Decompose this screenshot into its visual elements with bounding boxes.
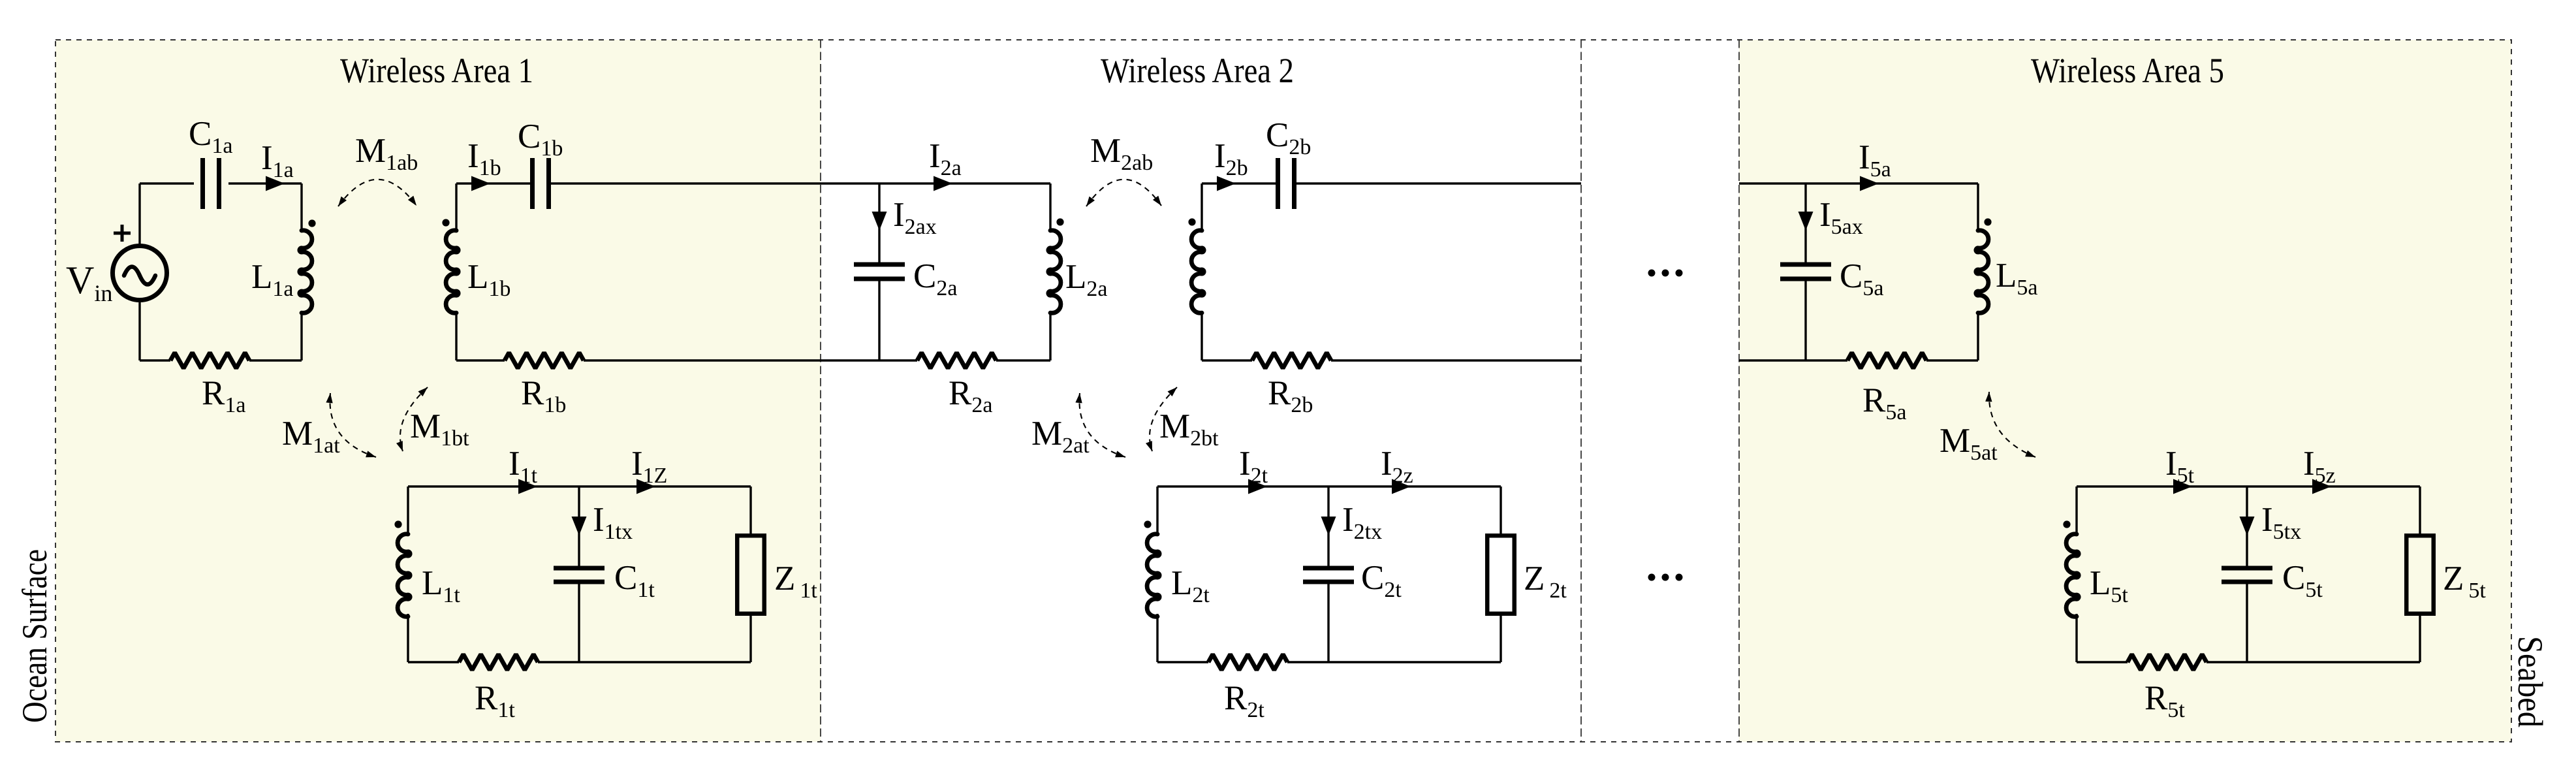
svg-text:Wireless Area 5: Wireless Area 5 — [2031, 51, 2224, 90]
svg-text:Wireless Area 1: Wireless Area 1 — [340, 51, 533, 90]
svg-text:Seabed: Seabed — [2511, 636, 2550, 727]
svg-text:Wireless Area 2: Wireless Area 2 — [1101, 51, 1294, 90]
svg-text:Ocean Surface: Ocean Surface — [15, 549, 54, 723]
